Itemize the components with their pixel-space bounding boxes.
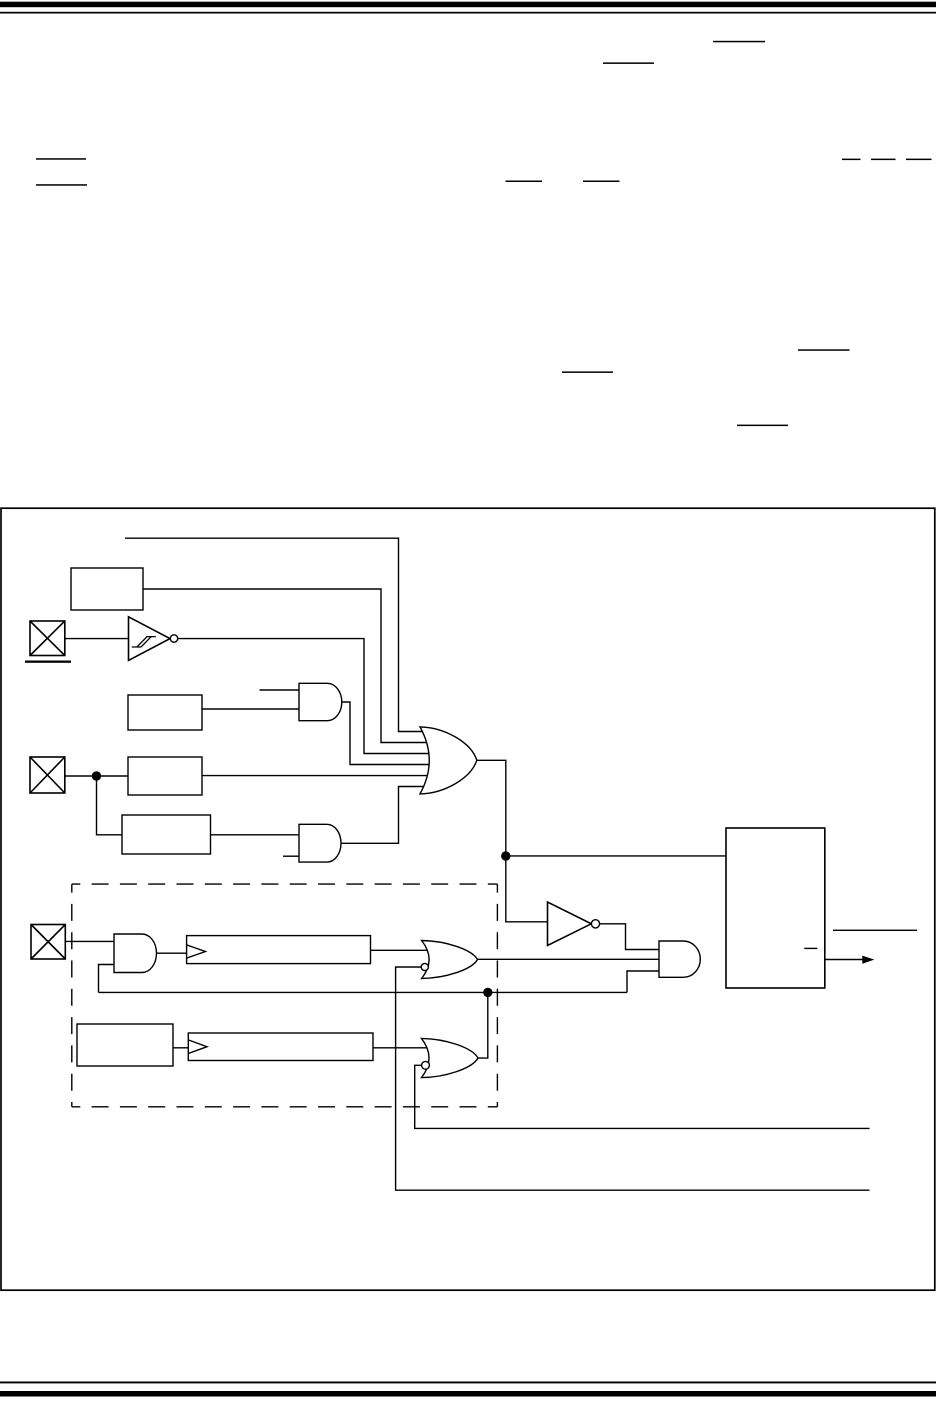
- wire pad X3 to AND A3 input 1: [65, 940, 114, 942]
- big block U7 (unlabeled register/counter block): [726, 828, 825, 988]
- wire latch D2 output to OR O2 input 1: [373, 1047, 431, 1049]
- wire pad X1 to Schmitt inverter input: [65, 638, 128, 640]
- overline dash a (para1 right): [842, 159, 861, 161]
- bottom footer thin rule: [0, 1382, 936, 1384]
- wire AND A2 output to OR gate input 6: [341, 787, 431, 844]
- AND gate A3: [114, 934, 157, 973]
- wire stub into AND A1 input 1: [260, 689, 300, 691]
- Schmitt-trigger inverter U0 triangle: [129, 617, 171, 661]
- OR gate O2 (with bubbled input): [422, 1038, 479, 1077]
- dashed synchronizer boundary box: [72, 884, 498, 1107]
- wire box U4 output to AND A2 input 1: [211, 834, 300, 836]
- overline over invisible signal name RESET (para1 left, line1): [36, 158, 86, 160]
- wire AND A3 input 2 loop: [99, 965, 115, 993]
- latch D2 (long rectangle): [188, 1033, 373, 1061]
- wire OR gate output down to inverter U5 input: [477, 760, 550, 922]
- overline over invisible signal name (para2 mid): [562, 371, 613, 373]
- box U2 (unlabeled function block): [128, 695, 202, 730]
- top header thin rule: [0, 12, 936, 14]
- wire node N1 branch down to box U4 input: [97, 776, 123, 835]
- wire OR O1 output to AND A4 input 2: [477, 958, 659, 960]
- wire AND A3 output to latch D1 clock: [156, 952, 187, 954]
- bubble on Schmitt inverter U0 output: [170, 635, 177, 642]
- wire OR O1 bubbled input long loop to bottom right: [396, 967, 870, 1190]
- overline over invisible signal name (header right): [713, 41, 765, 43]
- wire inverter U5 output to AND A4 input 1: [600, 924, 659, 950]
- overline over invisible signal name (title line): [603, 62, 654, 64]
- wire pad X2 to box U3 input: [65, 775, 128, 777]
- figure border frame: [1, 508, 935, 1290]
- overline dash b (para1 right): [871, 159, 896, 161]
- wire big block output to arrow: [825, 959, 866, 961]
- pad X2 (crossed-box I/O pad): [30, 757, 65, 793]
- junction node N3: [483, 988, 492, 997]
- wire net-1 (top feedback into OR gate input 1): [125, 538, 431, 731]
- wire AND A1 output to OR gate input 4: [342, 702, 432, 765]
- wire box U3 output to OR gate input 5: [202, 775, 431, 777]
- pad X1 (crossed-box I/O pad): [30, 621, 65, 656]
- wire box U6 output to latch D2 clock: [173, 1047, 190, 1049]
- OR gate G1 (6-input reset source OR): [420, 727, 477, 794]
- top header thick rule: [0, 2, 936, 8]
- junction node N2: [501, 851, 510, 860]
- wire OR O2 output up to node N3: [478, 992, 488, 1058]
- overline of invisible pad X1 pin name: [25, 661, 71, 663]
- latch D1 (long rectangle): [187, 936, 371, 964]
- wire from box U1 output to OR gate input 2: [143, 589, 431, 743]
- overline over invisible signal name (para1 left, line2): [36, 184, 87, 186]
- output arrowhead: [862, 956, 874, 964]
- latch D1 clock input triangle: [187, 945, 206, 958]
- wire OR O2 bubbled input loop to bottom right: [415, 1065, 870, 1128]
- overline of invisible pin name inside block U7: [804, 948, 817, 949]
- overline over invisible signal name (para2 right): [798, 349, 850, 351]
- bubble on OR O2 lower input: [422, 1061, 430, 1069]
- pad X3 (crossed-box I/O pad): [31, 925, 65, 960]
- box U6 (unlabeled function block): [77, 1024, 173, 1066]
- box U3 (unlabeled function block): [128, 757, 202, 795]
- wire step up into AND A4 input 3: [627, 971, 659, 992]
- AND gate A4 (3-input): [659, 941, 700, 977]
- overline over invisible signal name (para3): [737, 425, 788, 427]
- junction node N1: [92, 771, 101, 780]
- inverter U5 triangle: [548, 902, 592, 946]
- bottom footer thick rule: [0, 1391, 936, 1397]
- overline over invisible signal name (para1 mid a): [506, 181, 543, 183]
- wire node N2 branch to big block input: [506, 855, 727, 857]
- wire stub into AND A2 input 2: [283, 855, 299, 857]
- box U4 (unlabeled function block): [122, 815, 211, 854]
- wire long net at bottom of synchronizer: [99, 991, 628, 993]
- OR gate O1 (with bubbled input): [422, 941, 478, 979]
- AND gate A1: [299, 683, 342, 720]
- latch D2 clock input triangle: [188, 1040, 207, 1054]
- overline dash c (para1 right): [906, 159, 932, 161]
- AND gate A2: [299, 824, 341, 862]
- wire Schmitt inverter output to OR gate input 3: [178, 639, 431, 754]
- box U1 (unlabeled function block): [71, 568, 143, 610]
- wire box U2 output to AND A1 input 2: [202, 708, 299, 710]
- overline of invisible output signal name: [833, 930, 917, 931]
- wire latch D1 output to OR O1 input 1: [371, 949, 432, 951]
- Schmitt hysteresis symbol inside U0: [132, 637, 156, 647]
- bubble on inverter U5 output: [591, 920, 599, 928]
- bubble on OR O1 lower input: [421, 963, 428, 970]
- overline over invisible signal name (para1 mid b): [583, 181, 620, 183]
